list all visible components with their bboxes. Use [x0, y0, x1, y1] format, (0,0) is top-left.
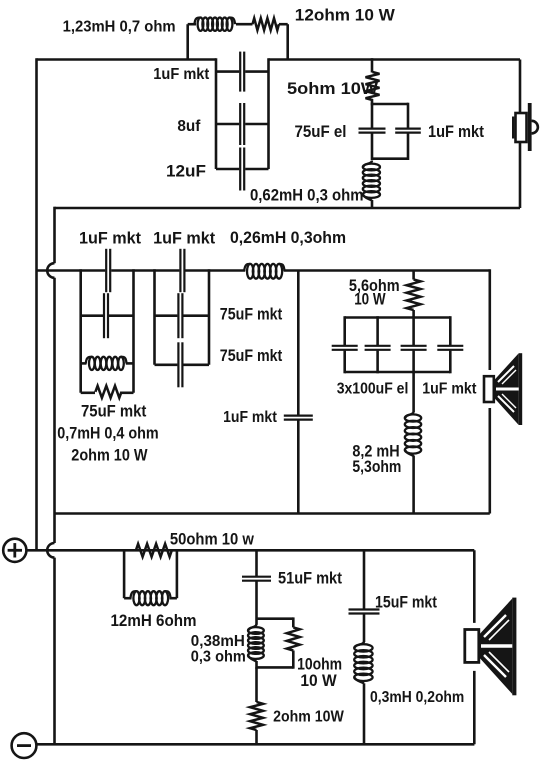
inductor 0,7mH 0,4 ohm: [86, 357, 127, 370]
svg-text:75uF mkt: 75uF mkt: [220, 306, 283, 324]
label 1uF mkt (top bank): [153, 66, 210, 83]
capacitor 3x100uF el (c): [401, 346, 427, 350]
inductor 8,2 mH 5,3ohm: [405, 412, 421, 457]
wire cap4 box bottom edge: [345, 371, 451, 374]
minus terminal: [12, 733, 37, 758]
svg-text:12mH 6ohm: 12mH 6ohm: [111, 611, 197, 630]
resistor 2ohm 10W (woofer): [250, 702, 263, 730]
label 1uF mkt (mid bank): [422, 381, 476, 398]
wire tweeter top line: [37, 58, 521, 61]
inductor 12mH 6ohm: [131, 591, 171, 605]
label 2ohm 10 W (net1): [71, 446, 148, 464]
inductor 0,38mH 0,3 ohm: [248, 624, 264, 662]
wire 12mH bottom leads: [124, 597, 177, 600]
wire 15uF to coil: [363, 614, 366, 642]
label 51uF mkt: [278, 569, 342, 588]
svg-text:0,26mH 0,3ohm: 0,26mH 0,3ohm: [230, 229, 346, 247]
svg-text:75uF el: 75uF el: [295, 123, 347, 141]
wire 0,3mH to minus: [363, 683, 366, 744]
wire LR box to 2ohm: [255, 667, 258, 702]
svg-text:75uF mkt: 75uF mkt: [81, 403, 147, 421]
plus terminal: [3, 539, 26, 562]
wire cap bank right rail: [267, 58, 270, 169]
capacitor 12uF: [240, 148, 244, 191]
wire plus feed vertical: [35, 58, 38, 550]
wire 5ohm top lead: [371, 58, 374, 72]
wire net2 left rail: [153, 269, 156, 365]
loudspeaker woofer: [465, 598, 517, 696]
capacitor 1uF mkt (mid bank): [437, 346, 463, 350]
label 0,7mH 0,4 ohm: [57, 425, 158, 443]
label 5,6ohm: [349, 277, 400, 295]
wire 0,38mH bottom lead: [255, 661, 258, 669]
resistor 5ohm 10W: [366, 72, 380, 100]
wire 75uF el upper lead: [371, 103, 374, 128]
inductor 0,26mH 0,3ohm: [244, 264, 284, 279]
wire 1uF mkt lower lead: [407, 133, 410, 160]
wire LR box top edge: [257, 617, 294, 620]
wire coil to resistor: [236, 23, 253, 26]
wire net2 right rail: [208, 269, 211, 365]
label 5,3ohm: [352, 458, 401, 476]
wire 8,2mH bottom lead: [412, 456, 415, 514]
capacitor 75uF mkt (net2 a): [178, 293, 182, 338]
wire mid bus: [37, 269, 490, 272]
capacitor 1uF mkt (mid shunt): [284, 416, 313, 420]
wire 51uF top lead: [255, 550, 258, 576]
capacitor 75uF mkt (net2 b): [178, 342, 182, 387]
wire tweeter top lead: [519, 60, 522, 114]
capacitor 51uF mkt: [242, 577, 271, 581]
wire net1 coil leads: [81, 362, 134, 365]
capacitor 75uF mkt (net1): [104, 293, 108, 338]
resistor 50ohm 10 w: [136, 544, 172, 557]
label 3x100uF el: [337, 381, 409, 398]
wire net1 cap leads: [81, 314, 134, 317]
wire woofer bottom lead: [473, 671, 476, 744]
label 1uF mkt (mid series 1): [79, 230, 142, 248]
capacitor 3x100uF el (a): [332, 346, 358, 350]
wire tweeter-mid return vertical: [47, 207, 54, 745]
inductor 1,23mH 0,7 ohm: [195, 18, 236, 31]
label 0,3mH 0,2ohm: [370, 689, 464, 706]
label 10ohm: [297, 656, 342, 674]
label 75uF mkt (net2 a): [220, 306, 283, 324]
wire 2ohm to minus: [255, 730, 258, 744]
svg-text:5ohm 10W: 5ohm 10W: [287, 79, 378, 98]
wire series branch right leg: [279, 24, 288, 59]
wire woofer top lead: [473, 550, 476, 623]
wire 75uF el lower lead: [371, 133, 374, 160]
capacitor 1uF mkt (mid series 1): [106, 249, 110, 292]
wire cap4 rails: [345, 316, 451, 373]
wire series branch left leg: [188, 24, 196, 59]
svg-text:1uF mkt: 1uF mkt: [428, 123, 485, 141]
label 0,3 ohm: [191, 648, 246, 665]
wire 0,62mH bottom lead: [371, 200, 374, 208]
capacitor 15uF mkt: [349, 610, 380, 614]
capacitor 8uf: [240, 103, 244, 145]
label 1,23mH 0,7 ohm: [63, 19, 176, 36]
capacitor 1uF mkt (top bank): [240, 52, 244, 92]
svg-text:12uF: 12uF: [166, 163, 206, 181]
capacitor 1uF mkt (top shunt): [395, 129, 421, 133]
svg-text:15uF mkt: 15uF mkt: [375, 594, 438, 612]
wire mid speaker top lead: [488, 269, 491, 370]
label 75uF mkt (net2 b): [220, 347, 283, 365]
label 12ohm 10 W: [295, 5, 395, 24]
label 75uF mkt (net1): [81, 403, 147, 421]
loudspeaker midrange: [484, 353, 522, 425]
label 15uF mkt: [375, 594, 438, 612]
wire tweeter bottom line: [55, 207, 521, 210]
label 1uF mkt (top shunt): [428, 123, 485, 141]
wire 5,6ohm bottom lead: [412, 310, 415, 318]
wire LR box bottom edge: [257, 666, 294, 669]
label 12uF: [166, 163, 206, 181]
svg-text:5,3ohm: 5,3ohm: [352, 458, 401, 476]
label 1uF mkt (mid shunt): [223, 409, 277, 426]
wire mid speaker bottom lead: [488, 408, 491, 514]
svg-text:50ohm 10 w: 50ohm 10 w: [170, 529, 255, 548]
label 12mH 6ohm: [111, 611, 197, 630]
label 2ohm 10W (woofer): [273, 708, 344, 725]
capacitor 1uF mkt (mid series 2): [180, 249, 184, 292]
svg-text:75uF mkt: 75uF mkt: [220, 347, 283, 365]
wire cap bank left rail: [215, 58, 218, 169]
resistor 2ohm 10 W (net1): [95, 386, 121, 398]
wire tweeter bottom lead: [519, 142, 522, 208]
svg-text:8uf: 8uf: [177, 118, 201, 135]
inductor 0,3mH 0,2ohm: [354, 641, 372, 683]
wire minus bus horizontal: [37, 743, 475, 746]
svg-text:0,3mH 0,2ohm: 0,3mH 0,2ohm: [370, 689, 464, 706]
label 8uf: [177, 118, 201, 135]
label 1uF mkt (mid series 2): [153, 230, 216, 248]
wire 1uF mid branch lower: [297, 420, 300, 513]
wire cap4 box top edge: [345, 316, 451, 319]
wire cap C-8uF leads: [216, 123, 269, 126]
wire net1 left rail: [79, 269, 82, 393]
wire 51uF to box: [255, 582, 258, 625]
capacitor 75uF el: [359, 129, 386, 133]
wire mid bottom line: [55, 512, 490, 515]
svg-text:51uF mkt: 51uF mkt: [278, 569, 342, 588]
svg-text:1uF mkt: 1uF mkt: [79, 230, 142, 248]
wire cap C-1uF leads: [216, 70, 269, 73]
resistor 12ohm 10 W: [253, 18, 279, 30]
svg-text:0,7mH 0,4 ohm: 0,7mH 0,4 ohm: [57, 425, 158, 443]
svg-text:0,62mH 0,3 ohm: 0,62mH 0,3 ohm: [250, 187, 364, 205]
wire net1 bottom leads: [81, 391, 134, 394]
wire net2 cap2 leads: [155, 363, 210, 366]
wire 12mH net right rail: [176, 550, 179, 598]
svg-text:2ohm 10W: 2ohm 10W: [273, 708, 344, 725]
wire 1uF mid branch upper: [297, 271, 300, 415]
wire 12mH net left rail: [123, 550, 126, 598]
inductor 0,62mH 0,3 ohm: [363, 161, 380, 201]
wire net1 right rail: [132, 269, 135, 393]
svg-text:1,23mH 0,7 ohm: 1,23mH 0,7 ohm: [63, 19, 176, 36]
svg-text:10ohm: 10ohm: [297, 656, 342, 674]
wire 8,2mH top lead: [412, 372, 415, 412]
capacitor 3x100uF el (b): [365, 346, 391, 350]
wire parallel cap box bottom: [372, 157, 408, 160]
label 0,38mH: [191, 633, 245, 650]
svg-text:1uF mkt: 1uF mkt: [422, 381, 476, 398]
wire 5,6ohm top lead: [412, 271, 415, 280]
label 50ohm 10 w: [170, 529, 255, 548]
svg-text:0,3 ohm: 0,3 ohm: [191, 648, 246, 665]
label 8,2 mH: [352, 443, 399, 461]
wire 1uF mkt upper lead: [407, 103, 410, 128]
label 5ohm 10W: [287, 79, 378, 98]
loudspeaker tweeter: [513, 103, 538, 151]
resistor 10ohm 10 W: [287, 627, 300, 650]
label 10 W (bottom): [300, 672, 337, 690]
svg-text:1uF mkt: 1uF mkt: [153, 230, 216, 248]
svg-text:10 W: 10 W: [300, 672, 337, 690]
label 75uF el: [295, 123, 347, 141]
svg-text:12ohm 10 W: 12ohm 10 W: [295, 5, 395, 24]
svg-text:2ohm 10 W: 2ohm 10 W: [71, 446, 148, 464]
wire parallel cap box top: [372, 99, 408, 105]
wire 15uF top lead: [363, 550, 366, 609]
resistor 5,6ohm 10 W: [407, 280, 421, 311]
wire net2 cap1 leads: [155, 314, 210, 317]
svg-text:3x100uF el: 3x100uF el: [337, 381, 409, 398]
label 0,62mH 0,3 ohm: [250, 187, 364, 205]
label 0,26mH 0,3ohm: [230, 229, 346, 247]
wire 10ohm bottom lead: [292, 651, 295, 669]
svg-text:1uF mkt: 1uF mkt: [223, 409, 277, 426]
wire plus bus horizontal: [28, 549, 475, 552]
label 10 W: [354, 291, 386, 309]
svg-text:1uF mkt: 1uF mkt: [153, 66, 210, 83]
wire 10ohm top lead: [292, 617, 295, 627]
svg-text:10 W: 10 W: [354, 291, 386, 309]
wire cap C-12uF leads: [216, 168, 269, 171]
